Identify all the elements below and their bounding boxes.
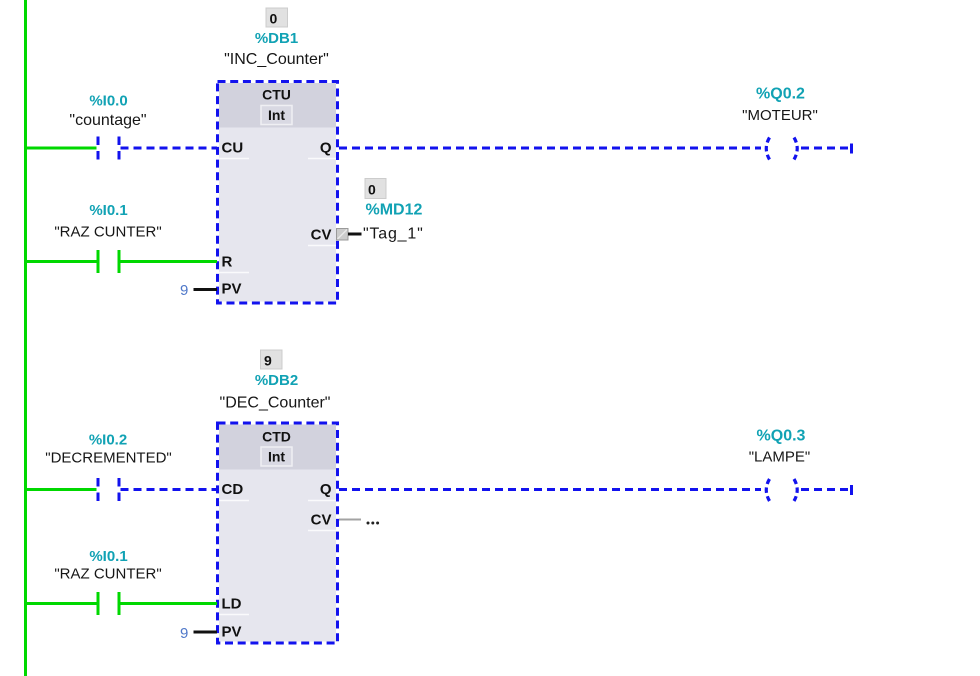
svg-text:9: 9	[180, 625, 188, 642]
svg-text:"DECREMENTED": "DECREMENTED"	[45, 450, 172, 467]
svg-text:"DEC_Counter": "DEC_Counter"	[220, 395, 331, 412]
svg-text:0: 0	[368, 182, 376, 198]
svg-text:Int: Int	[268, 449, 285, 465]
svg-text:"INC_Counter": "INC_Counter"	[224, 51, 329, 68]
svg-text:%Q0.2: %Q0.2	[756, 86, 805, 103]
svg-text:%I0.0: %I0.0	[89, 93, 127, 110]
svg-text:R: R	[222, 254, 233, 271]
svg-text:"countage": "countage"	[69, 112, 146, 129]
svg-text:CD: CD	[222, 481, 244, 498]
svg-text:0: 0	[270, 11, 278, 27]
svg-text:%I0.1: %I0.1	[89, 202, 127, 219]
svg-text:"RAZ CUNTER": "RAZ CUNTER"	[54, 224, 161, 241]
svg-text:%DB2: %DB2	[255, 372, 298, 389]
svg-text:CU: CU	[222, 140, 244, 157]
svg-text:LD: LD	[222, 596, 242, 613]
svg-text:%DB1: %DB1	[255, 30, 298, 47]
svg-text:Q: Q	[320, 140, 332, 157]
svg-text:Int: Int	[268, 107, 285, 123]
svg-text:"MOTEUR": "MOTEUR"	[742, 107, 818, 124]
svg-text:"LAMPE": "LAMPE"	[749, 449, 811, 466]
svg-text:CTU: CTU	[262, 87, 291, 103]
svg-text:CV: CV	[311, 227, 332, 244]
svg-text:PV: PV	[222, 624, 242, 641]
svg-text:"RAZ CUNTER": "RAZ CUNTER"	[54, 566, 161, 583]
svg-text:9: 9	[264, 353, 272, 369]
svg-text:Q: Q	[320, 481, 332, 498]
svg-text:PV: PV	[222, 281, 242, 298]
svg-text:%MD12: %MD12	[366, 202, 423, 219]
svg-text:%I0.2: %I0.2	[89, 432, 127, 449]
svg-text:CV: CV	[311, 512, 332, 529]
svg-text:9: 9	[180, 282, 188, 299]
svg-text:%I0.1: %I0.1	[89, 548, 127, 565]
svg-text:CTD: CTD	[262, 429, 291, 445]
svg-text:"Tag_1": "Tag_1"	[363, 226, 424, 243]
svg-text:%Q0.3: %Q0.3	[757, 428, 806, 445]
